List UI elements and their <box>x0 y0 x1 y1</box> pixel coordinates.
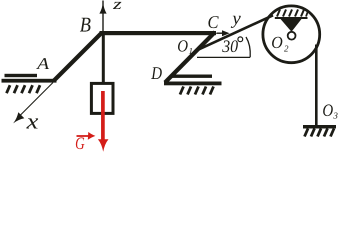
svg-text:30: 30 <box>221 36 238 56</box>
axis y <box>217 8 241 36</box>
wire rod C-D (diagonal) <box>165 32 215 83</box>
support at D (sliding support: two bars + hatching) <box>164 75 222 95</box>
wire rod B-A (diagonal) <box>54 33 102 81</box>
svg-text:1: 1 <box>189 46 194 56</box>
angle arc <box>246 37 250 57</box>
support at A (sliding support: two bars + hatching) <box>2 74 57 93</box>
svg-text:O: O <box>271 33 283 52</box>
rope from pulley down to O3 <box>315 45 318 126</box>
force G label (red, with vector bar) <box>75 132 95 153</box>
rope from O1 to pulley <box>197 15 273 50</box>
hanger wire from B to block <box>102 35 105 84</box>
angle baseline (horizontal reference) <box>197 56 250 58</box>
pulley O2 (circle) <box>263 6 320 63</box>
svg-text:x: x <box>26 109 39 134</box>
wire rod B-C (top horizontal bar) <box>100 31 217 35</box>
svg-text:3: 3 <box>332 110 338 120</box>
angle label 30 deg <box>221 36 242 56</box>
svg-text:O: O <box>322 100 333 120</box>
axis x <box>13 83 53 134</box>
support at O3 (ground bar + hatching) <box>303 125 336 137</box>
svg-text:y: y <box>230 8 241 28</box>
pulley support (hatched bar + bracket) <box>275 10 308 32</box>
block (weight) <box>91 83 113 113</box>
svg-text:O: O <box>177 37 188 56</box>
pulley pin at O2 <box>288 32 296 40</box>
svg-text:D: D <box>150 63 162 83</box>
svg-text:A: A <box>36 54 50 73</box>
svg-text:z: z <box>112 0 122 13</box>
svg-text:B: B <box>80 13 91 37</box>
svg-text:C: C <box>208 12 220 32</box>
svg-text:2: 2 <box>284 43 289 53</box>
force G red arrow <box>98 91 109 152</box>
axis z <box>99 0 121 32</box>
